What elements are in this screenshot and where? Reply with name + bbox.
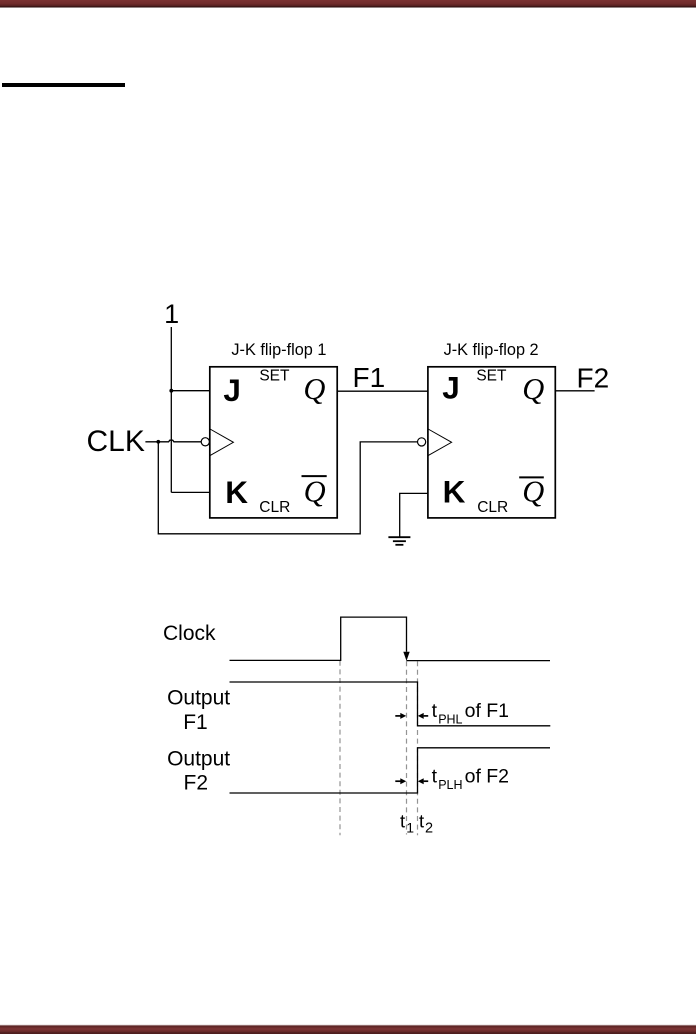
clock falling edge arrowhead [403, 652, 409, 661]
svg-text:J-K flip-flop 1: J-K flip-flop 1 [231, 341, 326, 359]
svg-text:PHL: PHL [438, 712, 462, 726]
svg-text:Q: Q [303, 372, 325, 406]
svg-text:PLH: PLH [438, 778, 462, 792]
svg-text:F1: F1 [353, 362, 386, 393]
clock waveform low segment after falling edge [407, 660, 551, 662]
svg-text:t: t [432, 765, 438, 787]
wire: K input of flip-flop 2 to ground [400, 493, 428, 536]
svg-text:CLK: CLK [87, 425, 145, 458]
wire: net F1 from Q of flip-flop 1 to J of flip-flop 2 [337, 390, 428, 392]
svg-text:J: J [223, 372, 241, 408]
ground [388, 537, 410, 545]
svg-text:SET: SET [259, 368, 290, 385]
wire: HIGH input down to J and K of flip-flop 1 [170, 327, 172, 492]
pin Q-bar of flip-flop 2 [519, 475, 544, 509]
svg-text:of F1: of F1 [465, 700, 509, 722]
svg-text:1: 1 [406, 820, 414, 836]
svg-text:CLR: CLR [477, 499, 508, 516]
svg-text:K: K [443, 473, 466, 509]
flip-flop 1 box [210, 367, 337, 518]
svg-text:J-K flip-flop 2: J-K flip-flop 2 [444, 341, 539, 359]
svg-text:t: t [419, 811, 424, 832]
svg-text:F2: F2 [577, 362, 610, 393]
svg-text:of F2: of F2 [465, 765, 509, 787]
svg-text:t: t [432, 700, 438, 722]
tPLH of F2 label [432, 765, 509, 792]
svg-text:Q: Q [304, 475, 326, 509]
flip-flop 2 box [428, 367, 555, 518]
svg-text:J: J [442, 369, 460, 405]
dashed timeline at clock rising edge [339, 661, 341, 836]
Output F1 label [167, 686, 230, 734]
svg-text:Q: Q [522, 475, 544, 509]
wire: K input of flip-flop 1 [171, 491, 210, 493]
pin Q-bar of flip-flop 1 [302, 475, 327, 509]
dashed timeline at t1 [406, 661, 408, 834]
tPHL of F1 label [432, 700, 509, 726]
clock waveform [230, 617, 407, 660]
waveform F1 [230, 682, 551, 726]
clock edge triangle of flip-flop 2 [428, 429, 452, 456]
junction: CLK branch [156, 440, 160, 444]
dashed timeline at t2 [417, 661, 419, 835]
waveform F2 [230, 748, 551, 793]
tPHL measure arrows [395, 713, 428, 719]
svg-text:F2: F2 [184, 772, 209, 795]
svg-text:2: 2 [425, 821, 433, 837]
wire: J input of flip-flop 1 [171, 390, 210, 392]
t1 time label [400, 811, 414, 836]
svg-text:Output: Output [167, 748, 230, 771]
svg-text:1: 1 [164, 299, 179, 329]
svg-text:K: K [225, 474, 248, 510]
wire: CLK to flip-flop 1 clock (with hop over HIGH wire) [145, 440, 201, 442]
tPLH measure arrows [395, 778, 428, 784]
Output F2 label [167, 748, 230, 795]
inversion bubble on flip-flop 1 clock [201, 438, 209, 446]
t2 time label [419, 811, 433, 837]
svg-text:Q: Q [522, 372, 544, 406]
svg-text:Clock: Clock [163, 622, 216, 645]
svg-text:CLR: CLR [259, 499, 290, 516]
wire: CLK branch routed under flip-flop 1 to flip-flop 2 clock [158, 442, 417, 534]
svg-text:SET: SET [476, 368, 507, 385]
clock edge triangle of flip-flop 1 [210, 429, 233, 456]
junction: J input of flip-flop 1 [169, 389, 173, 393]
svg-text:F1: F1 [183, 711, 208, 734]
wire: net F2 output of flip-flop 2 [555, 390, 594, 392]
svg-text:Output: Output [167, 686, 230, 709]
svg-text:t: t [400, 811, 405, 832]
inversion bubble on flip-flop 2 clock [418, 438, 426, 446]
